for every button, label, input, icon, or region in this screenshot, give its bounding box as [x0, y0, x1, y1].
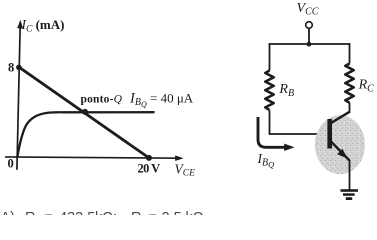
- node: dot at IC=8: [16, 65, 22, 71]
- node: junction dot on top rail: [307, 42, 312, 47]
- svg-text:VCC: VCC: [297, 1, 319, 18]
- resistor RC: [345, 64, 353, 103]
- svg-text:A)RB=433.5kΩ;RC=2.5kΩ: A)RB=433.5kΩ;RC=2.5kΩ: [1, 210, 204, 215]
- svg-text:VCE: VCE: [175, 161, 196, 178]
- wire: RB top lead: [269, 43, 271, 71]
- transistor Q1 shaded body: [315, 115, 365, 174]
- wire: top rail: [270, 43, 350, 45]
- svg-text:8: 8: [8, 60, 14, 74]
- current arrow IBQ: [258, 117, 285, 147]
- wire: RC top lead: [349, 43, 351, 64]
- svg-text:20 V: 20 V: [138, 161, 161, 175]
- wire: emitter to ground: [349, 160, 351, 190]
- svg-text:RB: RB: [278, 82, 294, 99]
- terminal Vcc (open circle): [306, 22, 313, 29]
- ground symbol: [341, 189, 359, 200]
- wire: RB bottom lead + base wire: [270, 110, 328, 134]
- svg-text:ponto-Q: ponto-Q: [81, 93, 123, 105]
- svg-text:0: 0: [8, 156, 14, 170]
- axis Y (I_C): [17, 20, 23, 170]
- svg-text:IBQ: IBQ: [257, 151, 275, 170]
- wire: RC bottom lead: [349, 103, 351, 114]
- svg-text:IBQ = 40 μA: IBQ = 40 μA: [129, 91, 194, 109]
- node: dot at 20V: [146, 155, 152, 161]
- node: Q point dot: [82, 109, 88, 115]
- transistor Q1 collector lead: [331, 112, 350, 124]
- transistor Q1 emitter lead with arrow: [331, 141, 350, 161]
- load line: [19, 67, 149, 158]
- svg-text:IC (mA): IC (mA): [21, 17, 65, 34]
- axis X (V_CE): [5, 155, 184, 161]
- transistor Q1 base bar: [327, 119, 332, 149]
- characteristic curve IB=40uA: [17, 112, 154, 156]
- wire: Vcc stem: [308, 29, 310, 46]
- resistor RB: [265, 71, 273, 111]
- svg-text:RC: RC: [358, 78, 375, 95]
